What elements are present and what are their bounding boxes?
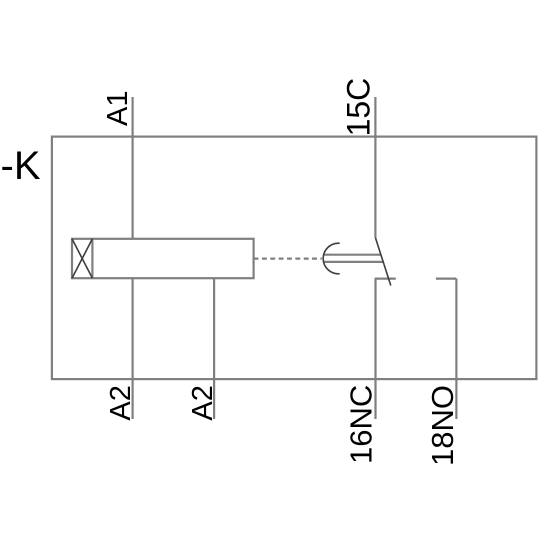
coil K1 cross diagonal 2 — [72, 239, 92, 278]
wire 15C terminal — [374, 97, 376, 238]
mechanical link dashed — [254, 258, 322, 260]
contact NC tick — [375, 278, 396, 280]
wire 16NC terminal — [374, 279, 376, 419]
device outline box — [52, 137, 537, 380]
actuator arc — [323, 243, 340, 274]
actuator bar upper — [324, 254, 381, 256]
svg-text:A1: A1 — [102, 91, 134, 126]
svg-text:-K: -K — [1, 144, 41, 188]
svg-text:A2: A2 — [105, 385, 137, 420]
wire A1 terminal — [132, 97, 134, 239]
svg-text:15C: 15C — [340, 78, 376, 137]
contact NO tick — [436, 278, 457, 280]
coil K1 body — [72, 239, 254, 278]
wire A2 terminal left — [132, 278, 134, 419]
coil K1 cross-box divider — [91, 239, 93, 278]
svg-text:A2: A2 — [187, 385, 219, 420]
actuator bar lower — [324, 261, 384, 263]
svg-text:18NO: 18NO — [425, 385, 460, 466]
coil K1 cross diagonal 1 — [72, 239, 92, 278]
wire 18NO terminal — [455, 279, 457, 419]
svg-text:16NC: 16NC — [344, 385, 379, 464]
wire A2 terminal right — [213, 278, 215, 419]
contact lever — [375, 238, 390, 286]
